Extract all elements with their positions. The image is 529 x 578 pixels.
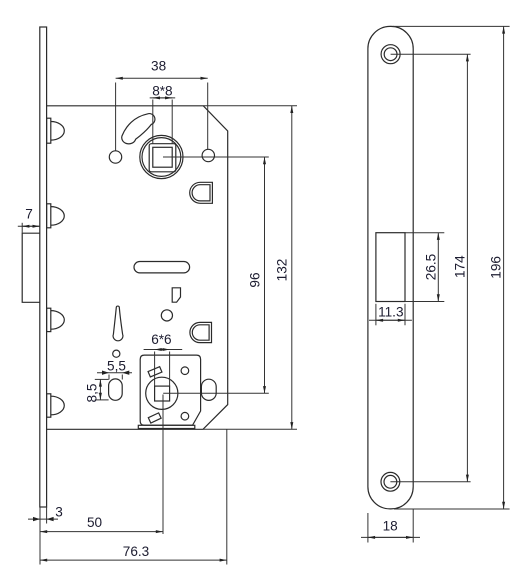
svg-text:7: 7 xyxy=(25,207,33,222)
top hole center ext line xyxy=(391,53,471,55)
dim 3 line xyxy=(28,518,58,520)
rivet bump 3 xyxy=(47,308,65,331)
dim 38 ext right xyxy=(207,83,209,150)
rivet bump 4 xyxy=(47,394,65,417)
D-hole 1 inner xyxy=(192,185,210,201)
rivet bump 2 xyxy=(47,204,65,228)
strike faceplate (front view) xyxy=(368,26,413,509)
svg-text:5,5: 5,5 xyxy=(107,359,126,374)
strip left ext line down xyxy=(39,507,41,565)
hub mounting plate xyxy=(140,355,200,425)
hub plate bottom strip xyxy=(138,425,195,428)
dim 11.3 line xyxy=(369,319,412,321)
middle oval slot xyxy=(134,262,190,273)
dim 50 line xyxy=(40,531,163,533)
dim 8*8 ext xyxy=(152,100,154,144)
top screw hole inner xyxy=(384,48,397,61)
cutout top ext xyxy=(405,232,444,234)
plate bottom ext line xyxy=(394,508,510,510)
svg-text:174: 174 xyxy=(453,255,468,278)
svg-text:18: 18 xyxy=(383,519,398,534)
center line bottom hub right xyxy=(163,392,269,394)
plate circle bottom xyxy=(181,412,189,420)
svg-text:50: 50 xyxy=(87,515,103,530)
center line bottom hub down xyxy=(162,395,164,535)
follower hub outer circle U-top xyxy=(140,135,183,178)
dim 7 ext xyxy=(21,223,23,233)
dim 76.3 line xyxy=(40,559,227,561)
dim 26.5 line xyxy=(437,233,439,302)
svg-text:132: 132 xyxy=(275,259,290,282)
right oval on plate xyxy=(201,379,216,400)
dim 5,5 line xyxy=(97,372,132,374)
spindle square inner 8x8 xyxy=(153,147,172,167)
oval slot 5.5x8.5 xyxy=(109,379,123,400)
plate top ext line xyxy=(393,25,510,27)
svg-text:11.3: 11.3 xyxy=(378,305,403,320)
small circle left of hub xyxy=(109,151,121,163)
body bottom edge extension line xyxy=(203,428,297,430)
dim 6*6 line xyxy=(144,349,183,351)
body top edge extension line xyxy=(203,105,297,107)
D-hole 2 inner xyxy=(192,325,209,340)
dim 96 line xyxy=(264,157,266,393)
tilted screw rect bottom xyxy=(148,413,161,423)
dim 174 line xyxy=(466,54,468,482)
dim 11.3 ext xyxy=(375,304,377,326)
svg-text:6*6: 6*6 xyxy=(151,332,171,347)
faceplate strip (side view) xyxy=(40,27,47,507)
dim 8*8 line xyxy=(150,97,176,99)
rivet bump 1 xyxy=(47,118,65,143)
bottom screw hole outer xyxy=(381,472,400,491)
dim 18 line xyxy=(361,536,420,538)
lock body outline xyxy=(47,106,228,430)
svg-text:8,5: 8,5 xyxy=(85,384,100,403)
bottom hub circle xyxy=(146,377,178,409)
svg-text:3: 3 xyxy=(55,505,63,520)
dim 5,5 ext xyxy=(108,375,110,380)
dim 132 line xyxy=(291,106,293,430)
teardrop slot xyxy=(113,306,123,341)
svg-text:196: 196 xyxy=(489,256,504,279)
tilted screw rect top xyxy=(148,367,162,377)
small circle right of hub xyxy=(202,149,214,161)
cutout bottom ext xyxy=(405,301,444,303)
strip right ext line down xyxy=(46,507,48,524)
bottom spindle square 6x6 xyxy=(155,386,170,401)
dim 8,5 ext xyxy=(95,378,109,380)
small circle mid xyxy=(161,310,172,321)
D-hole 1 outer xyxy=(190,182,213,203)
dim 38 ext left xyxy=(115,83,117,151)
D-hole 2 outer xyxy=(190,322,212,342)
body right ext line down xyxy=(226,429,228,564)
dim 6*6 ext xyxy=(154,352,156,387)
dim 7 line xyxy=(18,225,40,227)
kidney curved slot xyxy=(122,114,155,144)
top screw hole outer xyxy=(381,45,400,64)
dim 18 ext xyxy=(367,513,369,543)
bottom hole center ext line xyxy=(390,481,470,483)
center line from top hub to right xyxy=(163,156,269,158)
bottom screw hole inner xyxy=(384,475,397,488)
small circle above oval xyxy=(113,350,120,357)
follower hub inner circle xyxy=(142,138,181,177)
plate circle top xyxy=(181,367,189,375)
small pentagon cutout xyxy=(172,288,180,302)
dim 38 line xyxy=(116,77,208,79)
dim 196 line xyxy=(503,26,505,509)
latch bolt (protruding) xyxy=(22,233,40,302)
dim 8,5 line xyxy=(99,379,101,400)
latch cutout rectangle xyxy=(376,233,405,302)
spindle square outer xyxy=(149,144,176,172)
svg-text:38: 38 xyxy=(151,59,166,74)
svg-text:26.5: 26.5 xyxy=(423,254,438,280)
dim 3 arrows xyxy=(33,517,54,521)
svg-text:96: 96 xyxy=(248,272,263,287)
svg-text:8*8: 8*8 xyxy=(152,84,172,99)
dim 5,5 arrows xyxy=(102,371,129,375)
svg-text:76.3: 76.3 xyxy=(123,544,149,559)
